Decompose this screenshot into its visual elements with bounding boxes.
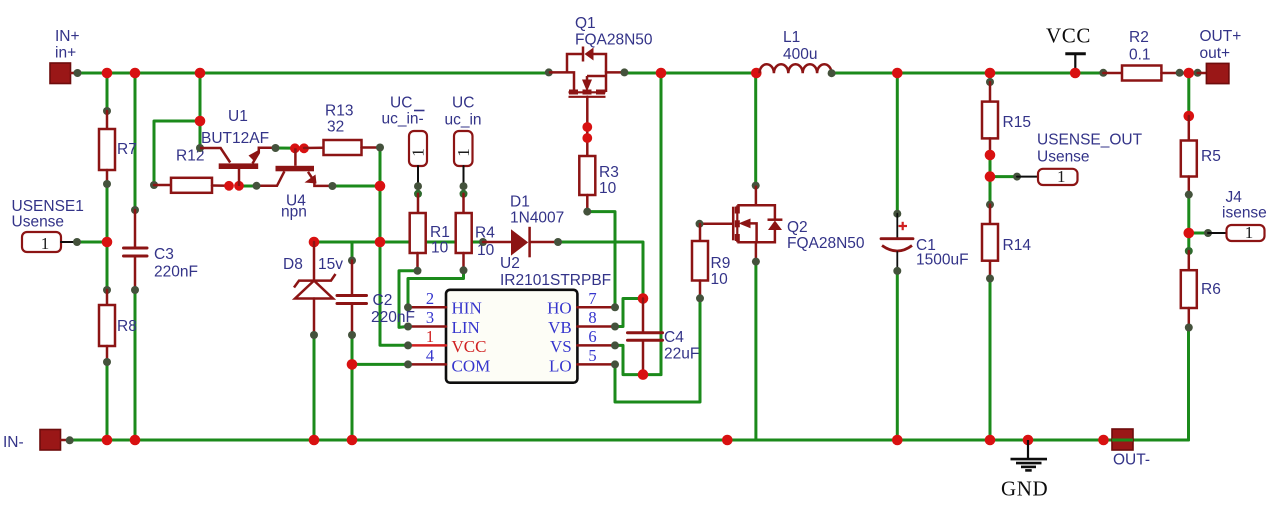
- connector IN- pin stub: [61, 439, 70, 442]
- pin 8 VB lead: [577, 325, 615, 328]
- pin end C1 top: [893, 210, 901, 218]
- zener D8 bottom lead: [313, 299, 316, 336]
- junction R15 top node: [985, 68, 996, 79]
- svg-text:U1: U1: [228, 108, 248, 125]
- resistor R8 top lead: [106, 290, 109, 305]
- pin end U1 emitter: [272, 144, 280, 152]
- pin end uc_in- port: [414, 182, 422, 190]
- junction x200 node: [195, 116, 206, 127]
- wire R14 to rail: [989, 279, 992, 441]
- pin end Usense_out: [1013, 173, 1021, 181]
- svg-text:4: 4: [426, 346, 434, 365]
- pin end R14 bottom: [986, 275, 994, 283]
- port USENSE1 pin: [61, 241, 77, 243]
- wire Usense_out tap: [990, 175, 1017, 178]
- svg-text:HO: HO: [547, 299, 572, 318]
- resistor R9 top lead: [699, 224, 702, 241]
- wire left column x107 middle: [106, 184, 109, 290]
- resistor R4 top lead: [462, 194, 465, 213]
- connector OUT+ pin stub: [1198, 72, 1207, 75]
- svg-text:1: 1: [426, 327, 434, 346]
- pin 3 LIN lead: [408, 325, 446, 328]
- svg-text:Q1: Q1: [575, 15, 596, 32]
- svg-text:OUT-: OUT-: [1113, 452, 1150, 469]
- wire bottom ground rail: [70, 439, 1189, 442]
- svg-text:10: 10: [599, 180, 617, 197]
- svg-text:R1: R1: [430, 224, 450, 241]
- pin end R2 right: [1176, 69, 1184, 77]
- wire D8 to ground rail: [313, 335, 316, 440]
- zener D8: [294, 274, 336, 299]
- junction U4 base b: [299, 143, 309, 153]
- capacitor C3 bottom lead: [134, 256, 137, 290]
- pin end R14 top: [986, 201, 994, 209]
- svg-text:R8: R8: [117, 318, 137, 335]
- capacitor C4 top lead: [642, 299, 645, 333]
- svg-text:R5: R5: [1201, 148, 1221, 165]
- capacitor C2 top lead: [351, 261, 354, 296]
- svg-text:R2: R2: [1129, 29, 1149, 46]
- capacitor C3 bottom plate: [124, 255, 148, 258]
- wire R3 to HO pin: [588, 212, 616, 308]
- junction top rail x107: [102, 68, 113, 79]
- svg-text:1: 1: [1245, 223, 1254, 242]
- resistor R1 top lead: [417, 194, 420, 213]
- pin end Q1 source: [620, 68, 628, 76]
- connector OUT+ pad: [1206, 63, 1229, 83]
- junction D8 top node: [309, 237, 320, 248]
- pin end Q2 drain: [752, 182, 760, 190]
- svg-text:R7: R7: [117, 141, 137, 158]
- pin end VS: [611, 341, 619, 349]
- port USENSE_OUT: [1038, 167, 1078, 186]
- pin end R6 bottom: [1185, 324, 1193, 332]
- wire R1 to LIN jog: [399, 271, 418, 328]
- pin end R7 bottom: [103, 180, 111, 188]
- connector IN- pad: [40, 430, 61, 451]
- power symbol VCC: [1065, 54, 1086, 73]
- pin end R4 top: [460, 190, 468, 198]
- pin end U4 emitter: [328, 182, 336, 190]
- svg-text:0.1: 0.1: [1129, 47, 1151, 64]
- wire left column x107 upper: [106, 73, 109, 111]
- pin end R4 bottom: [460, 266, 468, 274]
- wire R13 down x380 to VCC pin: [380, 148, 407, 346]
- transistor Q1 gate lead: [586, 97, 589, 156]
- junction x380 emitter node: [375, 181, 386, 192]
- svg-text:R3: R3: [599, 164, 619, 181]
- svg-text:R14: R14: [1003, 237, 1032, 254]
- resistor R9: [692, 241, 708, 281]
- junction rail OUT-: [1098, 435, 1109, 446]
- ground GND symbol: [1011, 440, 1048, 470]
- svg-text:400u: 400u: [783, 46, 817, 63]
- transistor U1 BUT12AF: [200, 148, 275, 186]
- pin 4 COM lead: [408, 363, 446, 366]
- pin 1 VCC lead: [408, 344, 446, 347]
- wire COM node to ground rail: [351, 364, 354, 440]
- svg-text:OUT+: OUT+: [1200, 28, 1242, 45]
- resistor R7 top lead: [106, 111, 109, 129]
- pin end U4 collector: [253, 182, 261, 190]
- wire top rail right (L1 to R2): [831, 72, 1103, 75]
- pin end C2 top: [348, 257, 356, 265]
- pin end R3 bottom: [583, 208, 591, 216]
- junction C4 bottom node: [638, 369, 649, 380]
- svg-text:Q2: Q2: [787, 219, 808, 236]
- resistor R2 right lead: [1161, 72, 1179, 75]
- svg-text:out+: out+: [1200, 45, 1231, 62]
- resistor R2 left lead: [1103, 72, 1122, 75]
- pin end COM: [404, 360, 412, 368]
- wire U1 emitter to U4 base node: [276, 147, 305, 150]
- pin end C1 bottom: [893, 267, 901, 275]
- capacitor C2 bottom plate: [337, 302, 367, 305]
- pin end C3 top: [131, 206, 139, 214]
- wire Usense1 to node: [77, 241, 107, 244]
- svg-text:R15: R15: [1003, 114, 1031, 131]
- wire U1 collector to U4 collector: [239, 185, 257, 188]
- svg-text:COM: COM: [452, 357, 491, 376]
- junction C4 top node: [638, 293, 649, 304]
- connector IN+ pin stub: [70, 72, 78, 75]
- svg-text:GND: GND: [1001, 477, 1048, 501]
- port UC uc_in: [454, 131, 473, 166]
- svg-text:uc_in: uc_in: [445, 112, 482, 129]
- pin end Q2 gate: [696, 220, 704, 228]
- resistor R1 bottom lead: [416, 253, 419, 271]
- pin end LIN: [404, 323, 412, 331]
- capacitor C1 bottom lead: [896, 252, 898, 271]
- resistor R7: [99, 129, 115, 170]
- wire C3 column lower: [134, 290, 137, 440]
- wire C3 column upper: [134, 73, 137, 210]
- wire J4 tap: [1189, 232, 1208, 235]
- wire C2 bottom to COM node: [351, 335, 354, 364]
- wire net y242 D8 to D1: [314, 241, 483, 244]
- resistor R14 bottom lead: [989, 261, 992, 279]
- port J4 isense: [1227, 223, 1265, 242]
- svg-text:in+: in+: [55, 45, 76, 62]
- pin 5 LO lead: [577, 363, 615, 366]
- junction rail x990: [985, 435, 996, 446]
- junction rail x314: [309, 435, 320, 446]
- junction rail GND: [1023, 435, 1034, 446]
- transistor U4 npn: [257, 148, 333, 186]
- resistor R8: [99, 305, 115, 346]
- svg-text:10: 10: [711, 271, 729, 288]
- wire over OUT- pad: [1112, 439, 1133, 442]
- resistor R9 bottom lead: [699, 281, 702, 299]
- wire Q2 source to rail: [754, 262, 757, 440]
- wire C1 bottom to rail: [896, 271, 899, 440]
- resistor R6 top lead: [1188, 251, 1191, 270]
- pin 7 HO lead: [577, 306, 615, 309]
- pin end R5 bottom: [1185, 191, 1193, 199]
- svg-text:1: 1: [409, 148, 428, 157]
- svg-text:USENSE_OUT: USENSE_OUT: [1037, 132, 1143, 149]
- svg-text:1N4007: 1N4007: [510, 210, 564, 227]
- pin end OUT+ port: [1194, 69, 1202, 77]
- wire OUT+ column upper: [1187, 73, 1190, 116]
- svg-text:uc_in-: uc_in-: [382, 111, 424, 128]
- capacitor C4 top plate: [628, 331, 663, 334]
- pin end L1 right: [828, 69, 836, 77]
- junction C1 top node: [892, 68, 903, 79]
- svg-text:USENSE1: USENSE1: [12, 198, 84, 215]
- svg-text:R13: R13: [325, 103, 353, 120]
- inductor L1 400u: [760, 64, 832, 73]
- wire D1 cathode to C4 top node: [558, 242, 643, 299]
- svg-text:R6: R6: [1201, 281, 1221, 298]
- pin end R9 bottom: [696, 294, 704, 302]
- pin end J4 port: [1204, 229, 1212, 237]
- pin end R15 top: [986, 78, 994, 86]
- junction COM node: [347, 359, 358, 370]
- svg-text:1500uF: 1500uF: [916, 252, 969, 269]
- port uc_in- pin: [417, 166, 419, 186]
- resistor R5 bottom lead: [1188, 177, 1191, 195]
- transistor Q2 FQA28N50: [700, 186, 783, 262]
- svg-text:Usense: Usense: [12, 214, 65, 231]
- connector OUT- pad: [1112, 429, 1133, 450]
- svg-text:FQA28N50: FQA28N50: [787, 235, 865, 252]
- svg-text:VCC: VCC: [452, 337, 487, 356]
- pin end R6 top: [1185, 247, 1193, 255]
- pin end Q1 drain: [545, 68, 553, 76]
- pin 6 VS lead: [577, 344, 615, 347]
- svg-text:LIN: LIN: [452, 318, 480, 337]
- svg-text:2: 2: [426, 289, 434, 308]
- svg-text:J4: J4: [1226, 189, 1243, 206]
- svg-text:C3: C3: [154, 246, 174, 263]
- capacitor C2 top plate: [337, 294, 367, 297]
- wire x200 drop to U1 base: [199, 73, 202, 148]
- junction R12-U1 a: [224, 181, 234, 191]
- pin end R12 left: [150, 181, 158, 189]
- transistor Q1 FQA28N50: [549, 47, 625, 93]
- resistor R6 bottom lead: [1188, 308, 1191, 328]
- resistor R15 bottom lead: [989, 138, 992, 155]
- resistor R12: [171, 178, 212, 193]
- junction Usense_out node: [985, 171, 996, 182]
- op-amp U2 IR2101STRPBF body: [446, 290, 577, 383]
- capacitor C1 top lead: [896, 214, 898, 239]
- svg-text:IN-: IN-: [3, 434, 24, 451]
- wire R15 top stub: [989, 73, 992, 82]
- junction VCC node: [1070, 68, 1081, 79]
- pin end IN-: [66, 436, 74, 444]
- svg-text:VCC: VCC: [1046, 24, 1091, 48]
- svg-text:10: 10: [431, 240, 449, 257]
- svg-text:R9: R9: [711, 255, 731, 272]
- resistor R13 left lead: [304, 147, 324, 150]
- svg-text:BUT12AF: BUT12AF: [201, 130, 269, 147]
- wire jog to R12: [154, 121, 200, 185]
- svg-text:UC: UC: [452, 95, 474, 112]
- pin end U1 base: [196, 144, 204, 152]
- svg-text:Usense: Usense: [1037, 149, 1090, 166]
- wire R4 to HIN jog: [408, 270, 464, 307]
- pin end R13 right: [376, 144, 384, 152]
- svg-text:D8: D8: [283, 256, 303, 273]
- resistor R4: [456, 213, 472, 253]
- junction rail x352: [347, 435, 358, 446]
- pin end R1 top: [414, 190, 422, 198]
- junction top rail x135: [130, 68, 141, 79]
- junction U4 base a: [290, 143, 300, 153]
- pin end C3 bottom: [131, 286, 139, 294]
- resistor R12 left lead: [154, 184, 171, 187]
- pin end D1 cathode: [554, 238, 562, 246]
- pin end VCC: [404, 341, 412, 349]
- capacitor C4 bottom plate: [628, 339, 663, 342]
- wire VB jog to C4 top: [615, 299, 643, 327]
- junction switch node top: [656, 68, 667, 79]
- junction R5 top: [1184, 111, 1195, 122]
- junction L1 left node: [751, 68, 762, 79]
- pin end D8 bottom: [310, 331, 318, 339]
- wire VS jog to switch node: [615, 345, 661, 374]
- svg-text:IR2101STRPBF: IR2101STRPBF: [500, 272, 611, 289]
- pin end IN+: [74, 69, 82, 77]
- junction R15 bottom: [985, 150, 996, 161]
- wire left column x107 lower: [106, 362, 109, 440]
- resistor R5 top lead: [1188, 116, 1191, 141]
- wire top rail mid (Q1 source to L1): [624, 72, 757, 75]
- pin end R8 bottom: [103, 358, 111, 366]
- svg-text:C4: C4: [664, 329, 684, 346]
- wire right column R6 to rail: [1187, 328, 1190, 441]
- pin end HIN: [404, 303, 412, 311]
- svg-text:C2: C2: [373, 292, 393, 309]
- svg-text:L1: L1: [783, 29, 800, 46]
- resistor R6: [1181, 270, 1197, 308]
- svg-text:3: 3: [426, 308, 434, 327]
- svg-text:UC: UC: [390, 95, 412, 112]
- capacitor C3 top plate: [124, 247, 148, 250]
- resistor R4 bottom lead: [462, 253, 465, 270]
- junction Q1 gate b: [582, 133, 592, 143]
- pin end Q2 source: [752, 258, 760, 266]
- capacitor C1 bottom plate (curved): [882, 246, 912, 252]
- pin 2 HIN lead: [408, 306, 446, 309]
- svg-text:VB: VB: [548, 318, 572, 337]
- wire Q2 drain drop: [754, 73, 757, 186]
- capacitor C3 top lead: [134, 210, 137, 248]
- svg-text:22uF: 22uF: [664, 346, 699, 363]
- svg-text:npn: npn: [281, 204, 307, 221]
- svg-text:6: 6: [588, 327, 596, 346]
- junction rail x727: [722, 435, 733, 446]
- resistor R15: [982, 102, 998, 139]
- diode D1 1N4007: [511, 229, 528, 255]
- svg-text:1: 1: [1057, 167, 1066, 186]
- wire C1 top drop: [896, 73, 899, 214]
- svg-text:5: 5: [588, 346, 596, 365]
- svg-text:VS: VS: [550, 337, 572, 356]
- svg-text:15v: 15v: [318, 256, 343, 273]
- wire switch node vertical x661: [660, 73, 663, 375]
- wire COM node to pin: [352, 363, 407, 366]
- diode D1 cathode lead: [530, 241, 558, 244]
- svg-text:U2: U2: [500, 255, 520, 272]
- svg-text:HIN: HIN: [452, 299, 482, 318]
- svg-text:32: 32: [327, 119, 344, 136]
- svg-text:isense: isense: [1222, 205, 1267, 222]
- resistor R12 right lead: [212, 184, 229, 187]
- port J4 pin: [1208, 232, 1227, 234]
- svg-text:220nF: 220nF: [154, 264, 198, 281]
- pin end HO: [611, 303, 619, 311]
- resistor R1: [410, 213, 426, 253]
- resistor R13 right lead: [362, 146, 381, 149]
- svg-text:IN+: IN+: [55, 28, 80, 45]
- resistor R3 bottom lead: [586, 195, 589, 212]
- pin end LO: [611, 360, 619, 368]
- diode D1 anode lead: [483, 241, 511, 244]
- port uc_in pin: [463, 166, 465, 186]
- connector IN+ pad: [50, 63, 71, 84]
- resistor R8 bottom lead: [106, 346, 109, 362]
- resistor R2: [1122, 66, 1161, 81]
- resistor R13: [324, 140, 362, 155]
- resistor R5: [1181, 141, 1197, 177]
- junction J4 node: [1184, 228, 1195, 239]
- wire top rail left (IN+ to Q1 drain): [74, 72, 548, 75]
- svg-text:1: 1: [454, 148, 473, 157]
- wire LO to R9 bottom: [615, 298, 700, 402]
- junction y242 x380: [375, 237, 386, 248]
- pin end USENSE1: [73, 238, 81, 246]
- port UC uc_in-: [409, 131, 428, 166]
- junction rail x135: [130, 435, 141, 446]
- resistor R15 top lead: [989, 82, 992, 102]
- resistor R14 top lead: [989, 205, 992, 224]
- pin end uc_in port: [460, 182, 468, 190]
- wire R5 bottom to J4 node: [1187, 195, 1190, 251]
- pin end R1 bottom: [414, 267, 422, 275]
- resistor R7 bottom lead: [106, 170, 109, 184]
- pin end C2 bottom: [348, 331, 356, 339]
- capacitor C4 bottom lead: [642, 340, 645, 374]
- svg-text:1: 1: [41, 234, 50, 253]
- wire R15 to Usense node: [989, 155, 992, 205]
- pin end R8 top: [103, 286, 111, 294]
- pin end R2 left: [1099, 69, 1107, 77]
- pin end VB: [611, 323, 619, 331]
- junction top rail x200: [195, 68, 206, 79]
- resistor R14: [982, 224, 998, 261]
- capacitor C1 plus sign: [899, 222, 908, 230]
- svg-text:LO: LO: [549, 357, 572, 376]
- zener D8 top lead: [313, 242, 316, 281]
- pin end R7 top: [103, 107, 111, 115]
- capacitor C1 top plate: [881, 237, 913, 240]
- svg-text:7: 7: [588, 289, 596, 308]
- junction OUT+ node: [1184, 68, 1195, 79]
- svg-text:8: 8: [588, 308, 596, 327]
- junction USENSE1 node: [102, 237, 113, 248]
- junction R12-U1 b: [234, 181, 244, 191]
- junction rail x107: [102, 435, 113, 446]
- port USENSE_OUT pin: [1017, 176, 1038, 178]
- junction Q1 gate a: [582, 122, 592, 132]
- wire U4 emitter to x380: [332, 185, 380, 188]
- port USENSE1: [22, 232, 61, 253]
- svg-text:D1: D1: [510, 194, 530, 211]
- resistor R3: [579, 156, 595, 195]
